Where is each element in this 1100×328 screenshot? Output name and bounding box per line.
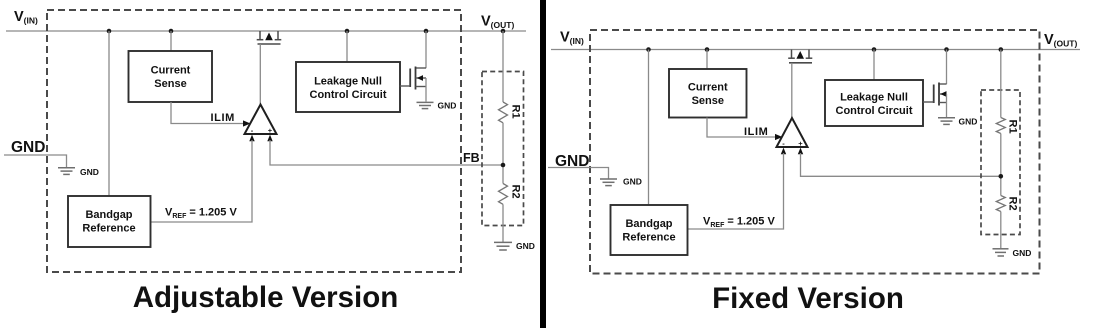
wire GND lead (fixed): [548, 168, 609, 179]
arrowhead inverting input (fixed): [781, 148, 786, 155]
node VIN (fixed): [560, 30, 584, 47]
svg-text:Bandgap: Bandgap: [85, 209, 132, 221]
resistor R1 (adjustable): [499, 102, 508, 123]
junction dot feedback node (fixed): [999, 174, 1004, 179]
svg-text:Bandgap: Bandgap: [625, 218, 672, 230]
svg-text:+: +: [798, 139, 803, 148]
svg-text:Leakage Null: Leakage Null: [314, 76, 382, 88]
node VOUT (adjustable): [481, 14, 514, 31]
svg-text:GND: GND: [623, 177, 642, 187]
wire ILIM (adjustable): [171, 102, 244, 124]
port GND label (adjustable): [11, 139, 45, 156]
svg-text:GND: GND: [80, 167, 99, 177]
junction dot Q1 drain tap (fixed): [944, 47, 949, 52]
svg-text:Reference: Reference: [82, 223, 135, 235]
junction dot bandgap tap (fixed): [646, 47, 651, 52]
junction dot current-sense tap (fixed): [705, 47, 710, 52]
wire VOUT to R1 (fixed): [1000, 50, 1002, 118]
port GND label (fixed): [555, 153, 589, 170]
svg-text:Current: Current: [688, 82, 728, 94]
svg-text:ILIM: ILIM: [211, 112, 235, 124]
wire feedback to non-inverting input (fixed): [801, 153, 1001, 176]
svg-text:GND: GND: [11, 139, 45, 156]
svg-text:GND: GND: [438, 101, 457, 111]
title Fixed Version: [712, 282, 904, 315]
ground symbol input (adjustable): [58, 167, 99, 177]
transistor sense FET (adjustable, top): [257, 31, 282, 44]
ground symbol divider (adjustable): [494, 241, 535, 251]
svg-text:ILIM: ILIM: [744, 126, 768, 138]
svg-text:+: +: [268, 126, 273, 135]
block Leakage Null Control Circuit (adjustable): [296, 62, 400, 112]
wire leakage-null top (fixed): [873, 50, 875, 81]
junction dot VOUT/R1 tap: [501, 29, 506, 34]
wire R2 to ground (fixed): [1000, 212, 1002, 249]
wire op-amp output to sense FET gate (adjustable): [259, 44, 261, 104]
svg-text:Sense: Sense: [692, 95, 724, 107]
block Bandgap Reference (adjustable): [68, 196, 151, 247]
arrowhead non-inverting input (fixed): [798, 148, 803, 155]
resistor R1 (fixed): [996, 118, 1005, 134]
arrowhead non-inverting input (adjustable): [267, 135, 272, 142]
wire GND lead (adjustable): [4, 155, 67, 167]
label ILIM (adjustable): [211, 112, 235, 124]
wire ILIM (fixed): [707, 118, 776, 138]
svg-text:Fixed Version: Fixed Version: [712, 282, 904, 315]
wire op-amp output to sense FET gate (fixed): [791, 63, 793, 118]
svg-text:V(OUT): V(OUT): [1044, 32, 1077, 49]
svg-text:Current: Current: [151, 65, 191, 77]
wire R1 to R2: [502, 123, 504, 184]
wire VIN rail (adjustable): [6, 30, 526, 32]
junction dot Q1 drain tap: [424, 29, 429, 34]
op-amp U1 (fixed): [777, 118, 808, 148]
IC boundary dashed box (adjustable): [47, 10, 461, 272]
label R2 (adjustable): [510, 185, 522, 199]
svg-text:R1: R1: [510, 105, 522, 119]
arrowhead ILIM into op-amp: [243, 120, 251, 126]
label R2 (fixed): [1007, 197, 1019, 211]
label R1 (fixed): [1007, 120, 1019, 134]
svg-text:V(IN): V(IN): [560, 30, 584, 47]
wire VOUT to R1: [502, 31, 504, 102]
wire VREF to inverting input: [151, 140, 253, 222]
svg-text:GND: GND: [516, 241, 535, 251]
label FB pin: [463, 151, 480, 165]
svg-text:VREF = 1.205 V: VREF = 1.205 V: [165, 207, 237, 221]
wire FB to non-inverting input (adjustable): [270, 140, 503, 165]
svg-text:Control Circuit: Control Circuit: [310, 89, 387, 101]
separator bar: [540, 0, 546, 328]
block Leakage Null Control Circuit (fixed): [825, 80, 923, 126]
svg-text:Leakage Null: Leakage Null: [840, 92, 908, 104]
external divider dashed box (adjustable): [482, 72, 524, 226]
label R1 (adjustable): [510, 105, 522, 119]
wire current-sense top (fixed): [706, 50, 708, 70]
IC boundary dashed box (fixed): [590, 30, 1040, 274]
svg-text:GND: GND: [1013, 248, 1032, 258]
ground symbol Q1 source (fixed): [938, 117, 977, 127]
node VIN (adjustable): [14, 9, 38, 26]
svg-text:V(OUT): V(OUT): [481, 14, 514, 31]
junction dot current-sense tap: [169, 29, 174, 34]
transistor Q1 pass MOSFET (adjustable): [400, 31, 426, 102]
svg-text:Sense: Sense: [154, 78, 186, 90]
transistor Q1 pass MOSFET (fixed): [923, 50, 947, 118]
svg-text:Reference: Reference: [622, 232, 675, 244]
arrowhead ILIM into op-amp (fixed): [775, 134, 783, 140]
transistor sense FET (fixed, top): [788, 50, 812, 63]
svg-text:R1: R1: [1007, 120, 1019, 134]
wire current-sense top: [170, 31, 172, 51]
wire bandgap drop (fixed): [648, 50, 650, 206]
arrowhead inverting input (adjustable): [249, 135, 254, 142]
svg-text:R2: R2: [510, 185, 522, 199]
svg-text:FB: FB: [463, 151, 480, 165]
junction dot bandgap tap: [107, 29, 112, 34]
label VREF = 1.205 V (fixed): [703, 216, 775, 230]
junction dot R1 tap (fixed): [999, 47, 1004, 52]
title Adjustable Version: [133, 281, 399, 314]
block Bandgap Reference (fixed): [611, 205, 688, 255]
resistor R2 (adjustable): [499, 184, 508, 205]
junction dot leakage-null tap: [345, 29, 350, 34]
ground symbol Q1 source (adjustable): [417, 101, 457, 111]
resistor R2 (fixed): [996, 196, 1005, 212]
wire R1 to R2 (fixed): [1000, 134, 1002, 196]
node VOUT (fixed): [1044, 32, 1077, 49]
junction dot FB node: [501, 163, 506, 168]
junction dot leakage-null tap (fixed): [872, 47, 877, 52]
svg-text:GND: GND: [959, 117, 978, 127]
wire leakage-null top: [346, 31, 348, 62]
svg-text:Adjustable Version: Adjustable Version: [133, 281, 399, 314]
block Current Sense (adjustable): [129, 51, 213, 102]
op-amp U1 (adjustable): [245, 105, 277, 135]
wire VIN rail (fixed): [551, 49, 1080, 51]
ground symbol divider (fixed): [993, 248, 1032, 258]
wire bandgap drop: [108, 31, 110, 196]
wire VREF to inverting input (fixed): [688, 153, 784, 229]
label VREF = 1.205 V (adjustable): [165, 207, 237, 221]
svg-text:R2: R2: [1007, 197, 1019, 211]
svg-text:V(IN): V(IN): [14, 9, 38, 26]
internal divider dashed box (fixed): [981, 90, 1020, 235]
ground symbol input (fixed): [600, 177, 642, 187]
label ILIM (fixed): [744, 126, 768, 138]
block Current Sense (fixed): [669, 69, 747, 118]
wire R2 to ground: [502, 204, 504, 242]
svg-text:VREF = 1.205 V: VREF = 1.205 V: [703, 216, 775, 230]
svg-text:Control Circuit: Control Circuit: [836, 105, 913, 117]
